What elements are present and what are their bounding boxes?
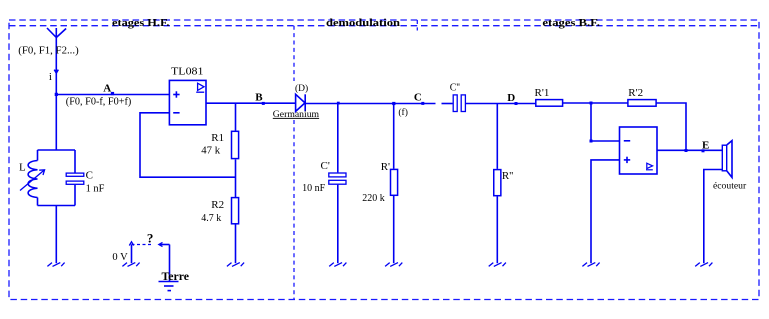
ground (R') xyxy=(385,263,402,267)
svg-text:1 nF: 1 nF xyxy=(86,183,105,195)
svg-text:i: i xyxy=(49,71,52,83)
svg-text:Germanium: Germanium xyxy=(273,110,320,120)
wire R1 to R2 xyxy=(235,160,237,198)
svg-text:TL081: TL081 xyxy=(171,65,204,77)
wire LC to ground xyxy=(55,206,57,264)
wire node A horizontal xyxy=(56,94,169,96)
svg-text:C': C' xyxy=(321,160,330,172)
op-amp U2 minus input symbol xyxy=(624,140,630,142)
ground (op-amp U2 plus input) xyxy=(582,263,599,267)
earth ground Terre symbol xyxy=(159,282,179,291)
svg-text:?: ? xyxy=(147,231,154,246)
wire A down to LC tank xyxy=(55,95,57,151)
capacitor C'' plates xyxy=(453,95,465,112)
wire LC tank top xyxy=(38,149,76,151)
variable inductor arrow xyxy=(20,170,45,191)
op-amp U1 TL081 body xyxy=(169,80,206,124)
resistor R' xyxy=(391,169,398,195)
junction dot feedback output xyxy=(685,149,688,152)
node dot D xyxy=(515,102,518,105)
svg-text:L: L xyxy=(19,161,26,173)
junction dot minus input U2 xyxy=(590,140,593,143)
inductor L xyxy=(28,150,37,206)
node dot C xyxy=(421,102,424,105)
switch arrowhead up xyxy=(129,242,133,246)
ground (LC tank) xyxy=(47,263,64,267)
svg-text:C: C xyxy=(414,92,422,104)
speaker ecouteur xyxy=(722,141,732,178)
svg-text:0 V: 0 V xyxy=(112,252,128,263)
wire R'1 to R'2 xyxy=(563,102,628,104)
junction dot R' branch xyxy=(392,102,395,105)
svg-text:etages H.F.: etages H.F. xyxy=(112,18,170,29)
svg-text:C'': C'' xyxy=(450,82,460,93)
ground (R'') xyxy=(489,263,506,267)
junction dot C' branch xyxy=(337,102,340,105)
capacitor C' plates xyxy=(329,173,346,184)
section separator stub demodulation/B.F. xyxy=(416,20,418,31)
op-amp U1 gain triangle xyxy=(196,83,204,92)
wire segment before C'' xyxy=(442,103,453,105)
resistor R'1 xyxy=(536,100,563,107)
svg-text:(D): (D) xyxy=(295,83,308,94)
switch dashed link xyxy=(132,244,153,246)
wire terre horizontal xyxy=(159,244,170,246)
svg-text:R'1: R'1 xyxy=(535,87,550,99)
svg-text:D: D xyxy=(507,92,515,104)
wire plus input to ground xyxy=(591,160,620,263)
current arrow i xyxy=(54,70,58,73)
op-amp U2 body xyxy=(620,127,658,174)
wire C' to ground xyxy=(337,185,339,264)
ground (0V chassis) xyxy=(122,263,139,267)
switch arrowhead left xyxy=(159,242,163,246)
ground (R2) xyxy=(227,263,244,267)
wire R' to ground xyxy=(393,196,395,263)
junction dot R'1/R'2 xyxy=(590,102,593,105)
wire node C down to C' xyxy=(337,104,339,173)
wire terre vertical xyxy=(169,245,171,282)
wire node down to R' xyxy=(393,104,395,169)
wire R'2 to feedback corner xyxy=(656,103,686,151)
section separator H.F./demodulation xyxy=(293,26,295,300)
switch 0V vertical wire xyxy=(131,245,133,264)
diode D germanium xyxy=(296,94,306,111)
wire LC tank bottom xyxy=(38,205,76,207)
svg-text:4.7 k: 4.7 k xyxy=(201,212,221,224)
resistor R2 xyxy=(232,198,239,224)
resistor R'' xyxy=(494,170,501,196)
op-amp U1 plus input symbol xyxy=(173,91,179,97)
wire node D down to R'' xyxy=(496,104,498,169)
op-amp U2 plus input symbol xyxy=(624,157,630,163)
svg-text:(F0, F0-f, F0+f): (F0, F0-f, F0+f) xyxy=(66,97,132,108)
wire C'' to node D xyxy=(466,103,536,105)
wire antenna mast xyxy=(55,38,57,95)
capacitor C plates xyxy=(66,150,84,206)
resistor R1 xyxy=(232,131,239,158)
svg-text:R'2: R'2 xyxy=(628,87,643,99)
node dot A xyxy=(111,92,114,95)
svg-text:écouteur: écouteur xyxy=(713,181,747,191)
wire op-amp U1 output to node B and diode xyxy=(206,102,296,104)
wire junction down to minus input op-amp U2 xyxy=(591,103,620,141)
svg-text:(f): (f) xyxy=(398,107,408,118)
svg-text:R': R' xyxy=(381,161,390,173)
svg-text:10 nF: 10 nF xyxy=(302,182,325,194)
node dot B xyxy=(262,102,265,105)
resistor R'2 xyxy=(628,100,656,107)
wire diode to node C area xyxy=(305,103,435,105)
wire op-amp U2 output to node E and speaker xyxy=(657,149,722,151)
svg-text:Terre: Terre xyxy=(162,269,190,283)
wire feedback minus input xyxy=(140,113,236,177)
junction dots xyxy=(55,92,705,152)
op-amp U2 gain triangle xyxy=(646,163,653,170)
svg-text:A: A xyxy=(103,83,111,95)
svg-text:R1: R1 xyxy=(211,132,224,144)
node dot antenna/A junction xyxy=(55,93,58,96)
ground (C') xyxy=(329,263,346,267)
svg-text:220 k: 220 k xyxy=(362,192,385,204)
wire R'' to ground xyxy=(496,196,498,263)
wire R2 to ground xyxy=(235,224,237,263)
svg-text:R'': R'' xyxy=(502,170,513,182)
wire speaker lower terminal to ground xyxy=(704,170,723,264)
op-amp U1 minus input symbol xyxy=(173,112,179,114)
svg-text:E: E xyxy=(702,140,709,152)
svg-text:47 k: 47 k xyxy=(201,145,220,157)
node dot E xyxy=(702,149,705,152)
svg-text:R2: R2 xyxy=(211,199,224,211)
wire output down to R1 xyxy=(235,103,237,131)
svg-text:(F0, F1, F2...): (F0, F1, F2...) xyxy=(18,45,78,56)
ground (speaker) xyxy=(695,263,712,267)
svg-text:C: C xyxy=(86,170,93,182)
antenna xyxy=(47,28,66,38)
svg-text:demodulation: demodulation xyxy=(326,18,400,29)
svg-text:B: B xyxy=(255,91,263,103)
svg-text:etages B.F.: etages B.F. xyxy=(542,18,600,29)
